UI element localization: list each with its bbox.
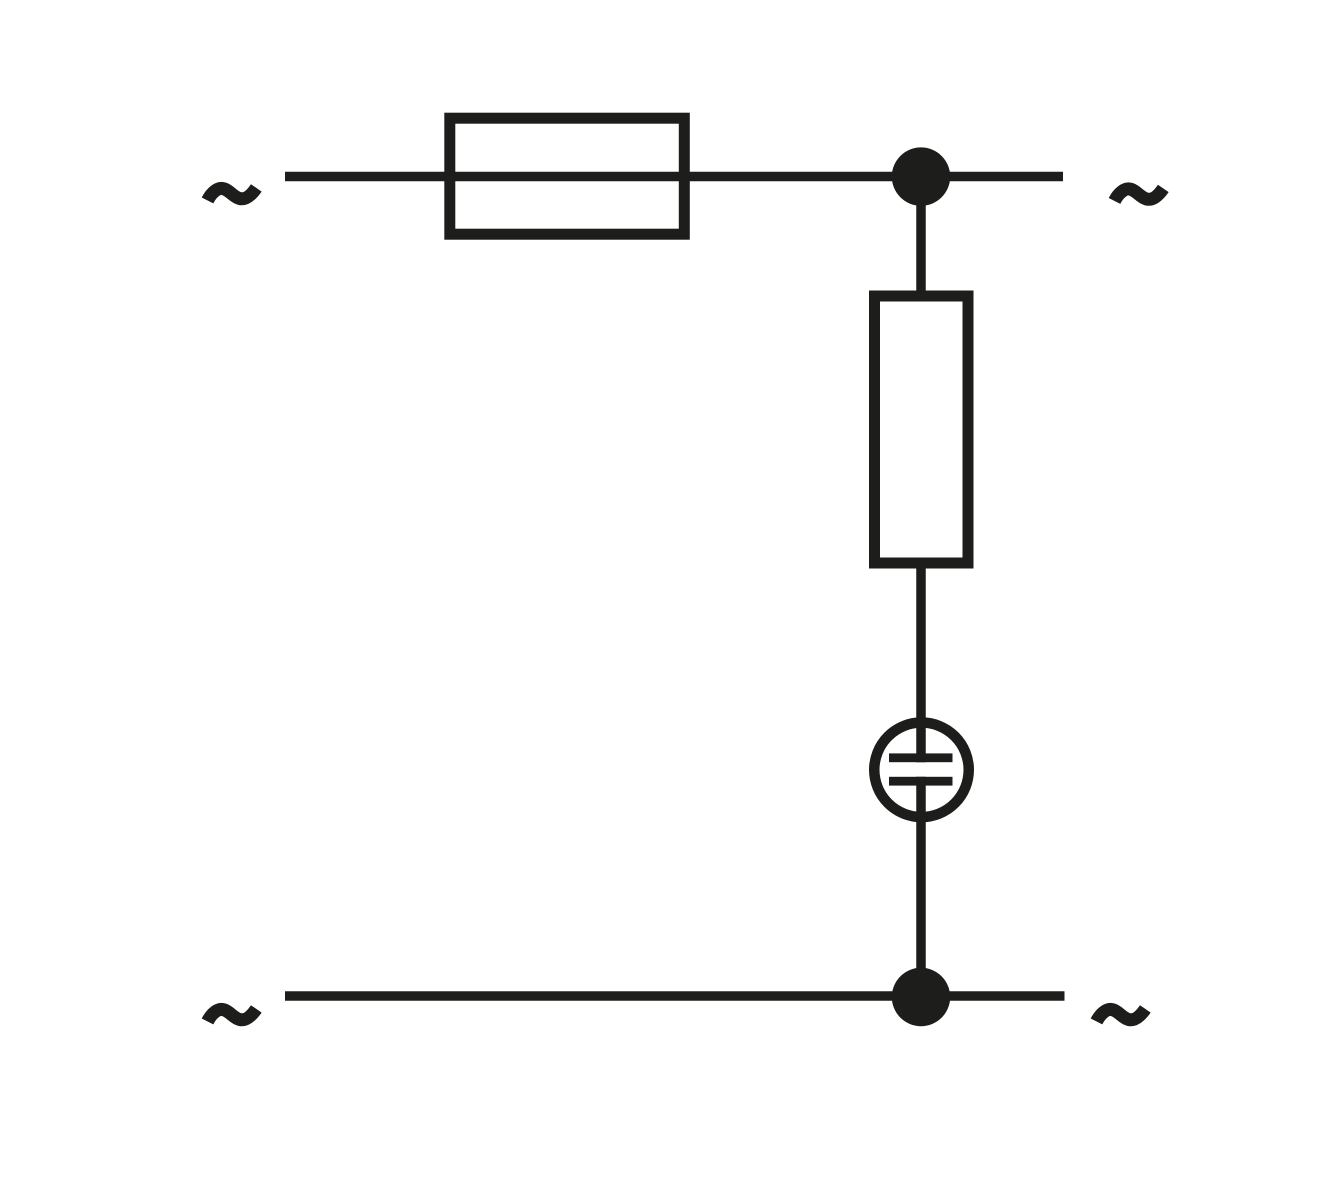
wire: vertical from resistor to gas discharge tube top electrode [916,563,926,762]
AC terminal tilde, top-right [1115,188,1164,201]
gas discharge tube: circle [874,723,969,818]
gas discharge tube: top electrode bar [889,753,953,762]
node: top junction dot [892,147,950,205]
fuse (rectangle around top wire) [450,118,685,234]
AC terminal tilde, bottom-right [1097,1009,1146,1022]
gas discharge tube: bottom electrode bar [889,777,953,786]
AC terminal tilde, bottom-left [208,1009,257,1022]
wire: top horizontal line [285,172,1063,182]
wire: vertical from top junction to resistor [916,177,926,297]
AC terminal tilde, top-left [208,188,257,201]
wire: bottom horizontal line [285,991,1065,1001]
node: bottom junction dot [892,968,950,1026]
wire: vertical from gas discharge tube bottom electrode to bottom junction [916,777,926,996]
resistor (vertical rectangle) [875,296,969,563]
